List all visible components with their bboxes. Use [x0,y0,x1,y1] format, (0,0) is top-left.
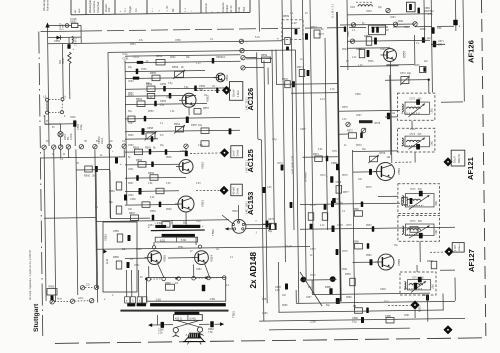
svg-text:C576: C576 [337,224,343,227]
svg-text:0.5μ: 0.5μ [123,53,128,56]
svg-text:C568: C568 [331,162,337,165]
svg-text:1 mV: 1 mV [454,245,457,251]
svg-text:R557: R557 [203,107,210,110]
svg-text:C574: C574 [310,205,316,207]
svg-text:R573: R573 [356,145,362,147]
svg-text:L581: L581 [435,229,438,235]
svg-text:2.1V: 2.1V [320,98,325,101]
svg-text:+: + [277,37,279,41]
svg-text:0.05A: 0.05A [70,133,73,140]
svg-text:Vorstufe: Vorstufe [204,3,208,13]
svg-text:L581: L581 [430,140,433,146]
svg-text:R586: R586 [353,208,359,211]
svg-text:C573: C573 [410,134,416,136]
svg-text:R590: R590 [366,255,372,257]
svg-text:C572: C572 [320,175,326,177]
svg-text:R565: R565 [166,157,172,159]
svg-text:V553: V553 [201,200,205,207]
svg-text:0.4V: 0.4V [342,119,347,121]
svg-text:C563: C563 [366,11,372,13]
svg-text:V556: V556 [397,168,401,175]
svg-text:R564: R564 [342,49,348,51]
svg-text:X552: X552 [104,234,108,241]
svg-text:20mA: 20mA [101,137,104,144]
svg-text:C552: C552 [133,56,140,59]
svg-text:R559: R559 [148,111,154,113]
svg-text:R587: R587 [366,225,372,227]
svg-text:R571: R571 [297,66,303,69]
svg-text:R582: R582 [165,282,171,285]
svg-text:1.7k: 1.7k [428,13,433,16]
svg-text:M: M [63,153,65,156]
svg-text:425 Ω: 425 Ω [175,318,182,321]
svg-text:R574: R574 [313,153,319,156]
svg-text:16 μV: 16 μV [453,156,457,163]
svg-text:an: an [74,10,77,13]
svg-text:1.5V: 1.5V [180,150,185,153]
svg-text:C560: C560 [130,198,136,201]
svg-text:Stuttgart: Stuttgart [33,303,40,332]
svg-text:C56: C56 [437,27,442,30]
svg-text:R559: R559 [261,54,268,57]
svg-text:3V: 3V [204,95,207,97]
svg-text:9V: 9V [46,141,49,143]
svg-text:V558: V558 [397,259,401,266]
svg-text:C555: C555 [160,83,167,86]
svg-text:R569: R569 [166,209,172,211]
svg-text:R567: R567 [128,183,134,185]
svg-text:R552: R552 [170,57,176,59]
svg-text:42 mV: 42 mV [232,187,236,195]
svg-text:NF: NF [171,8,175,12]
svg-text:V551: V551 [225,74,229,81]
svg-text:50μ: 50μ [326,305,331,307]
svg-text:C566: C566 [355,93,361,96]
svg-text:R575: R575 [375,122,381,125]
svg-text:50μ: 50μ [199,89,204,92]
svg-text:aus: aus [78,8,81,13]
svg-text:170: 170 [438,44,443,47]
svg-text:AF121: AF121 [466,156,475,180]
svg-text:L581: L581 [432,283,435,289]
svg-text:R554: R554 [136,98,143,101]
svg-text:C579: C579 [310,275,316,277]
svg-text:R565: R565 [150,210,156,213]
svg-text:U. ( M. f. 2 ): U. ( M. f. 2 ) [331,4,335,18]
svg-text:TB: TB [84,141,87,143]
svg-text:(0.4Ω): (0.4Ω) [190,319,197,321]
svg-text:6V: 6V [140,277,143,279]
svg-text:10μ: 10μ [198,124,203,127]
svg-text:R566: R566 [148,172,155,175]
svg-text:6V: 6V [52,127,55,129]
svg-text:R551: R551 [130,43,136,46]
svg-text:R558: R558 [128,95,134,97]
svg-text:C573: C573 [412,278,418,280]
svg-text:1.1V: 1.1V [196,63,201,65]
svg-text:460kHz: 460kHz [459,244,461,251]
svg-text:R591: R591 [342,269,348,271]
svg-text:R570: R570 [282,78,288,81]
svg-text:1.6Ω: 1.6Ω [156,299,161,302]
svg-text:C562: C562 [347,31,350,37]
svg-text:V562: V562 [201,162,205,169]
svg-text:C590: C590 [380,288,386,291]
svg-text:R573: R573 [318,33,324,36]
svg-text:( AC 128 ): ( AC 128 ) [245,201,249,214]
svg-text:R579: R579 [366,187,372,189]
svg-text:Endstufe: Endstufe [221,2,225,13]
svg-text:Λ: Λ [186,333,188,337]
svg-text:V550: V550 [54,39,61,43]
svg-text:R578: R578 [342,106,348,109]
svg-text:C591: C591 [404,315,410,317]
svg-text:C581: C581 [134,265,140,267]
svg-text:C573: C573 [277,163,283,165]
svg-text:C562: C562 [128,195,134,197]
svg-text:+ −: + − [151,8,154,12]
svg-text:2.5V: 2.5V [196,183,201,185]
svg-text:R567: R567 [364,35,370,38]
svg-text:R577: R577 [343,191,349,194]
svg-text:+: + [73,47,75,51]
svg-text:R573: R573 [311,26,317,29]
svg-text:V555: V555 [163,255,167,262]
svg-text:C573: C573 [410,99,416,101]
svg-text:220V: 220V [78,298,84,300]
svg-text:mA: mA [122,140,126,143]
svg-text:T552: T552 [242,6,246,13]
svg-text:C550: C550 [70,117,76,119]
svg-text:C567: C567 [356,115,362,117]
svg-text:0.1: 0.1 [222,56,226,59]
svg-text:C578: C578 [342,251,348,253]
svg-text:C577: C577 [310,248,316,251]
svg-text:C551: C551 [123,58,130,61]
svg-text:C573: C573 [410,221,416,223]
svg-text:C571: C571 [332,151,338,153]
svg-text:L581: L581 [435,200,438,206]
svg-text:33 mV: 33 mV [232,89,236,97]
svg-text:Λ ∿: Λ ∿ [123,7,127,12]
svg-text:V557: V557 [403,50,407,58]
svg-text:0.2A4: 0.2A4 [59,23,62,30]
svg-text:T553: T553 [232,311,236,318]
svg-text:ab Gerät / Apparatus / a parti: ab Gerät / Apparatus / a partir de No. G… [29,250,32,300]
svg-text:C569: C569 [336,181,342,184]
svg-text:C558: C558 [147,127,154,130]
svg-text:R576: R576 [380,152,386,155]
svg-text:≈ 4.5Ω: ≈ 4.5Ω [155,222,163,225]
svg-text:R590: R590 [49,286,55,289]
svg-text:2200: 2200 [310,320,316,324]
svg-text:25μ: 25μ [308,287,313,289]
svg-text:A-Ω: A-Ω [105,259,109,264]
svg-text:300: 300 [59,59,62,64]
svg-text:C575: C575 [346,225,352,227]
svg-text:Aufnahme: Aufnahme [92,0,96,13]
svg-text:C595: C595 [385,315,391,318]
svg-text:4V: 4V [305,12,308,15]
svg-text:C559: C559 [128,145,134,147]
svg-text:R589: R589 [346,297,352,299]
svg-text:R560: R560 [128,135,134,137]
svg-text:AUF / WIE / GB: AUF / WIE / GB [291,156,295,174]
svg-text:0.25: 0.25 [267,187,272,189]
svg-text:NF 4V: NF 4V [229,5,233,13]
svg-text:Pegel: Pegel [128,6,132,13]
svg-text:R567: R567 [129,212,136,215]
svg-text:C561: C561 [128,169,134,171]
svg-text:2x AD148: 2x AD148 [249,251,258,288]
svg-text:R572: R572 [347,130,353,133]
svg-text:R586: R586 [282,305,288,307]
svg-text:C556: C556 [166,97,172,99]
svg-text:U=Nenn: U=Nenn [304,172,308,182]
svg-text:R569: R569 [283,15,290,18]
svg-text:R561: R561 [133,147,140,150]
svg-text:N: N [52,153,54,156]
svg-text:C564: C564 [148,225,154,227]
svg-text:0.315: 0.315 [70,17,77,21]
svg-text:0.25: 0.25 [275,289,280,292]
svg-text:R578: R578 [342,175,348,177]
svg-text:L581: L581 [430,108,433,114]
svg-text:1Ω: 1Ω [216,249,219,251]
svg-text:R584: R584 [262,299,268,301]
svg-text:4.7k: 4.7k [330,88,335,91]
svg-text:R553: R553 [172,65,179,69]
svg-text:C585: C585 [262,313,268,315]
svg-text:Aufnahme: Aufnahme [46,0,50,11]
svg-text:R563: R563 [420,29,426,31]
svg-text:⊥ 4V: ⊥ 4V [165,5,169,12]
svg-text:40p: 40p [407,72,412,75]
svg-text:C559: C559 [113,230,119,233]
svg-text:R568: R568 [414,65,420,67]
svg-text:0.25: 0.25 [166,183,171,185]
svg-text:R551: R551 [156,55,163,58]
svg-text:50μ: 50μ [128,111,133,113]
svg-text:R592: R592 [427,260,433,263]
svg-text:1.5Ω: 1.5Ω [210,298,215,301]
svg-text:50μ: 50μ [268,230,273,233]
svg-text:C566: C566 [404,27,410,29]
svg-text:8.2Ω: 8.2Ω [160,239,165,242]
svg-text:0.1μ: 0.1μ [272,138,277,141]
svg-text:C573: C573 [410,189,416,191]
svg-text:C572: C572 [400,72,406,75]
svg-text:C582: C582 [196,269,202,271]
svg-text:25μ: 25μ [394,245,399,247]
svg-text:6.3Ω: 6.3Ω [181,239,186,242]
svg-text:L561: L561 [350,7,356,9]
svg-text:Umschalt: Umschalt [96,2,100,13]
svg-text:L582: L582 [410,128,416,131]
svg-text:C587: C587 [306,297,312,299]
svg-text:Treiber: Treiber [225,4,229,13]
svg-text:0.4V: 0.4V [292,22,297,25]
svg-text:R589: R589 [345,273,351,276]
svg-text:M: M [46,121,48,123]
svg-text:2.2k: 2.2k [158,332,163,335]
svg-text:10k: 10k [107,7,111,12]
svg-text:5.2V: 5.2V [255,36,260,39]
svg-text:C567: C567 [300,128,306,131]
svg-text:R566: R566 [368,61,374,63]
svg-text:4V: 4V [346,61,349,63]
svg-text:T552: T552 [211,229,215,236]
svg-text:C557: C557 [191,124,198,127]
svg-text:R568: R568 [113,256,119,259]
svg-text:0.1μ: 0.1μ [352,321,357,324]
svg-text:50μ: 50μ [109,201,114,204]
svg-text:R564: R564 [174,123,181,126]
svg-text:C564: C564 [390,17,396,19]
svg-text:AF126: AF126 [467,40,476,63]
svg-text:R581: R581 [178,247,184,249]
svg-text:0.1: 0.1 [134,8,138,12]
svg-text:AF127: AF127 [467,249,476,272]
svg-text:0.25μ: 0.25μ [337,202,344,205]
svg-text:E653: E653 [418,305,422,312]
svg-text:( AC 151 ): ( AC 151 ) [245,160,249,173]
svg-text:R561: R561 [398,21,404,23]
svg-text:C557: C557 [128,123,134,125]
svg-text:1 kHz: 1 kHz [236,90,240,97]
svg-text:R580: R580 [136,249,142,251]
svg-text:+: + [326,174,328,178]
svg-text:R585: R585 [325,286,331,289]
svg-text:25μ: 25μ [362,149,367,151]
svg-text:C550: C550 [175,39,181,42]
svg-text:100μ: 100μ [79,124,83,130]
svg-text:X551: X551 [232,210,238,213]
svg-text:( AC 151 ): ( AC 151 ) [245,97,249,110]
svg-text:5Ω: 5Ω [183,222,186,225]
svg-text:0.5μ: 0.5μ [196,221,201,223]
svg-text:0.1μ: 0.1μ [384,301,389,303]
svg-text:Wiedergabe: Wiedergabe [88,0,92,13]
svg-text:71 NF1: 71 NF1 [75,37,78,46]
svg-text:R555: R555 [150,72,157,75]
svg-text:25μ: 25μ [128,67,133,69]
svg-text:C570: C570 [268,218,275,221]
svg-text:1.2V: 1.2V [358,65,363,67]
svg-text:+: + [120,162,122,166]
svg-text:0.5μ: 0.5μ [168,83,173,85]
svg-text:25μ: 25μ [160,145,165,147]
svg-text:1 kHz: 1 kHz [236,187,240,194]
svg-text:1 mV: 1 mV [232,150,236,156]
svg-text:R560: R560 [84,175,91,178]
svg-text:7.5k: 7.5k [208,331,213,334]
svg-text:R588: R588 [353,241,359,244]
svg-text:460 kHz: 460 kHz [458,153,461,163]
svg-text:V554: V554 [210,255,214,262]
svg-text:C553: C553 [128,81,134,83]
svg-text:C569: C569 [380,49,386,51]
svg-text:R562: R562 [136,159,143,162]
svg-text:0.1μF: 0.1μF [285,244,292,248]
svg-text:1 kHz: 1 kHz [236,149,240,156]
svg-text:Trafo: Trafo [237,6,241,13]
svg-text:1Ω: 1Ω [175,282,178,285]
svg-text:R565: R565 [356,48,362,51]
svg-text:25μ: 25μ [160,104,165,107]
svg-text:C553: C553 [141,69,147,71]
